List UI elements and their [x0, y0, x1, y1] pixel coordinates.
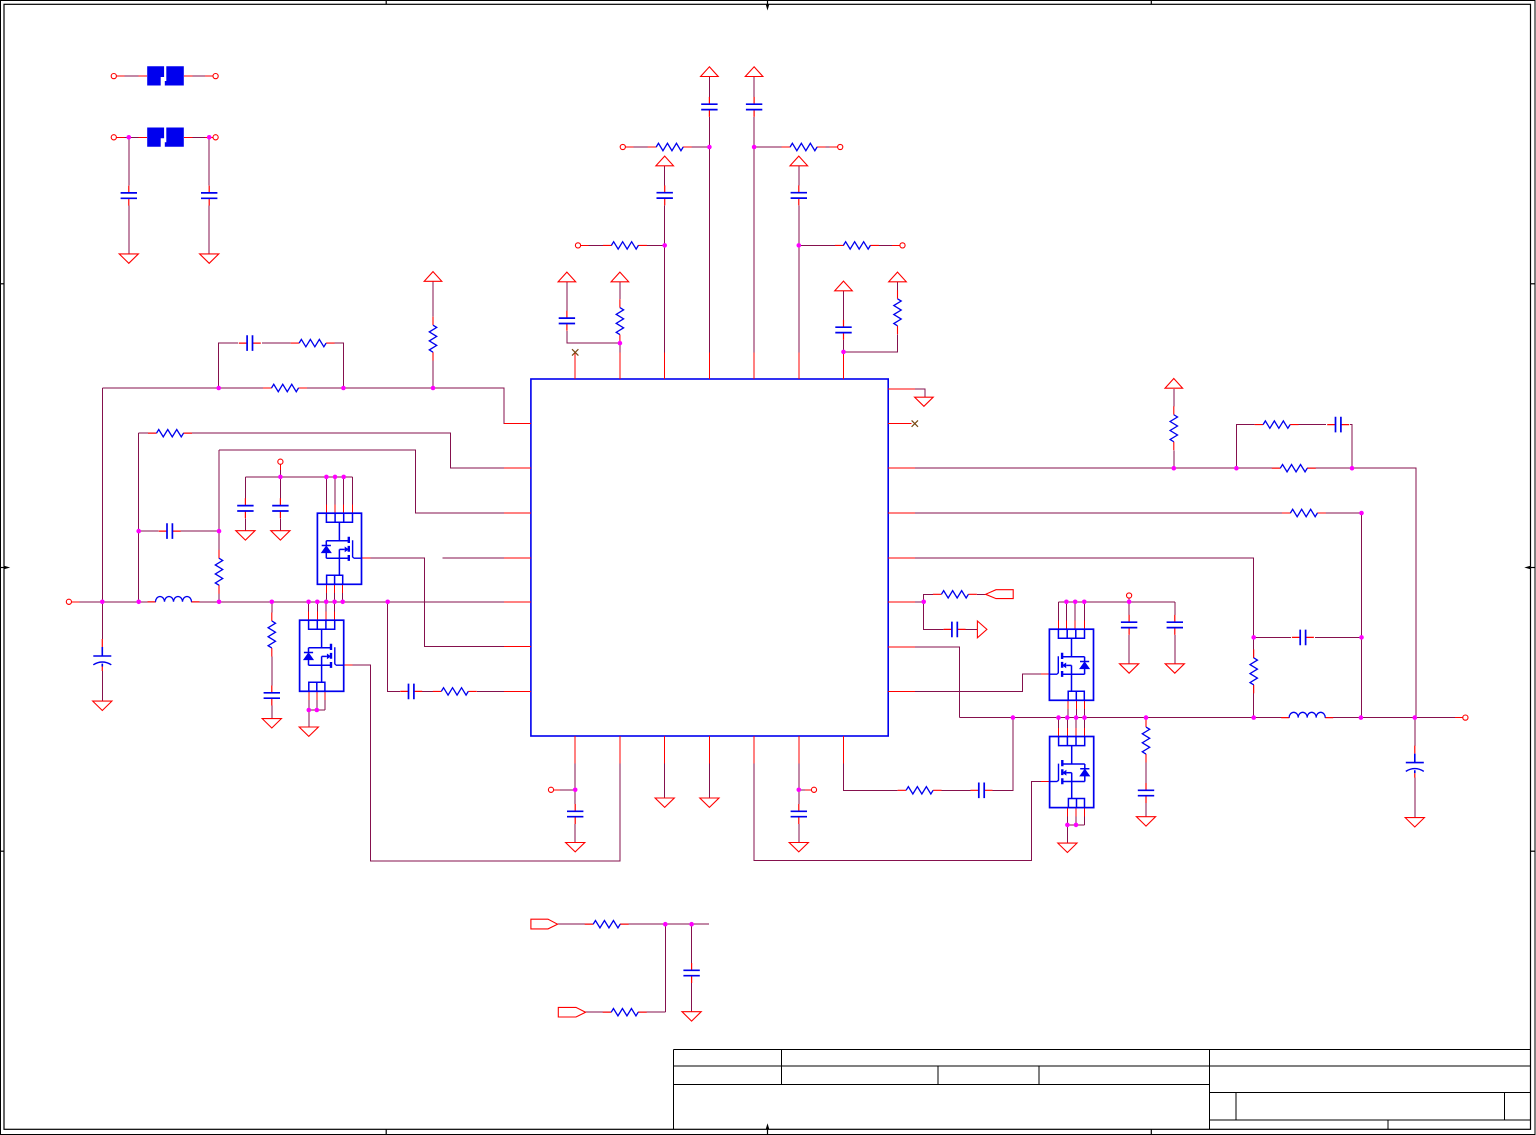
node Q2 source a — [307, 708, 312, 713]
pin stubs IC bottom side — [575, 736, 843, 763]
zone tick bottom quarter left — [385, 1129, 387, 1134]
node rail x271 — [270, 600, 275, 605]
terminal J5 — [575, 243, 580, 248]
node J9 — [797, 788, 802, 793]
wire output rail — [960, 717, 1463, 719]
node out rail q4d — [1082, 715, 1087, 720]
node FB2 left — [127, 135, 132, 140]
wire Q4 source pins join — [1067, 808, 1084, 825]
wire stub to IC pin 4 — [443, 557, 531, 559]
zone tick left quarter upper — [1, 283, 5, 285]
wire IC right pin to bst column — [888, 558, 1253, 717]
power VDD2 — [745, 67, 763, 77]
wire C21 branch left — [1254, 636, 1291, 638]
node gate rail p3 — [341, 475, 346, 480]
wire IC pin to J9 node — [799, 789, 812, 791]
wire C20 to loop right leg — [1350, 425, 1352, 469]
capacitor C1 — [121, 186, 137, 206]
wire VDD9 to R9 — [432, 282, 434, 317]
wire right branch vertical — [218, 450, 220, 602]
node tag row a — [663, 922, 668, 927]
transistor Q4 dual MOSFET lower right — [1050, 737, 1094, 808]
power VDD1 — [701, 67, 719, 77]
wire terminal J3 row to node — [625, 146, 709, 148]
resistor R23 vertical — [215, 550, 222, 594]
pin stubs IC left side — [504, 424, 531, 692]
resistor R1 — [648, 143, 692, 150]
wire Q4 source to ground — [1066, 825, 1068, 843]
wire VDD2 to C4 — [753, 77, 755, 97]
wire tag2 to R15 row — [586, 1011, 666, 1013]
terminal J1 left — [111, 74, 116, 79]
node IC right x923 — [921, 600, 926, 605]
wire ferrite FB2 left lead — [116, 136, 147, 138]
node out rail x1361 — [1359, 715, 1364, 720]
zone tick top center arrow — [767, 1, 769, 5]
wire IC bottom pin to R13 — [844, 736, 898, 790]
wire VDD8 to R6 — [897, 282, 899, 291]
no-connect X1 — [572, 349, 578, 355]
terminal J2 left — [111, 135, 116, 140]
node rail q2e — [340, 600, 345, 605]
wire ferrite FB1 right lead — [184, 75, 213, 77]
node fb row a — [1172, 466, 1177, 471]
terminal J11 input — [66, 599, 71, 604]
wire Q1 source pins to main rail — [327, 584, 343, 602]
wire Q2 drain pins to main rail — [309, 602, 335, 620]
terminal J9 — [811, 787, 816, 792]
node rail q2d — [332, 600, 337, 605]
power VDD8 — [889, 272, 907, 282]
pin stubs ferrite FB1 — [116, 75, 213, 77]
pin stub terminals top row — [581, 147, 900, 245]
wire terminal J10 stub — [1128, 598, 1130, 602]
wire R5 to IC pin — [619, 343, 621, 379]
wire C9 to R7 — [262, 342, 291, 344]
wire comp rail left leg down — [101, 388, 103, 602]
wire Q3 source pins to output rail — [1068, 700, 1084, 717]
capacitor C15 series — [400, 684, 422, 700]
pin stub output rail terminal — [1455, 717, 1463, 719]
resistor R12 — [433, 688, 477, 695]
terminal J12 output — [1463, 715, 1468, 720]
wire IC right pin to down arrow — [888, 389, 925, 397]
wire VDD4 to C6 — [798, 166, 800, 186]
ground C2 — [200, 254, 219, 263]
node gate rail r3 — [1082, 600, 1087, 605]
ground C23 — [1120, 664, 1139, 673]
transistor Q3 dual MOSFET upper right — [1049, 629, 1093, 700]
pin stub terminals J8 J9 — [554, 789, 812, 791]
ground C17 — [789, 843, 808, 852]
wire C23 to ground — [1128, 635, 1130, 664]
power VDD9 — [424, 272, 442, 282]
resistor R3 — [603, 242, 647, 249]
node rail x138 — [136, 600, 141, 605]
resistor R5 — [616, 299, 623, 343]
pin stub input rail terminal — [72, 601, 80, 603]
ground C14 — [262, 719, 281, 728]
tag flag TP4 triangle — [977, 621, 987, 638]
capacitor C26 polarized — [1406, 746, 1424, 778]
node out rail x1146 — [1144, 715, 1149, 720]
wire IC pin down through node to C17 — [798, 736, 800, 804]
wire terminal J5 row to node — [581, 244, 665, 246]
capacitor C8 — [835, 320, 851, 340]
wire R6 to node — [844, 334, 898, 352]
wire C8 node to IC pin — [843, 340, 845, 379]
terminal J2 right — [213, 135, 218, 140]
wire IC bottom pin to Q4 gate — [754, 736, 1050, 860]
zone tick right quarter lower — [1531, 850, 1536, 852]
pin stubs IC right side — [888, 389, 915, 691]
wire C11 upper lead — [244, 477, 246, 498]
wire IC right pin feedback row — [888, 468, 1416, 717]
ground C16 — [566, 843, 585, 852]
capacitor C14 — [264, 686, 280, 706]
capacitor C3 — [701, 97, 717, 117]
wire C11 to ground — [244, 518, 246, 530]
title block outline — [674, 1050, 1531, 1130]
wire C25 to ground — [1145, 803, 1147, 817]
zone tick bottom quarter right — [1150, 1129, 1152, 1134]
ground IC pin 1 — [655, 798, 674, 807]
node VDD2 row — [752, 145, 757, 150]
node comp rail a — [216, 386, 221, 391]
node C10 right — [217, 529, 222, 534]
wire C10 link right — [181, 530, 219, 532]
node Q4 source b — [1074, 823, 1079, 828]
resistor R18 — [1272, 465, 1316, 472]
terminal J6 — [900, 243, 905, 248]
node FB2 right — [207, 135, 212, 140]
wire node to terminal J6 — [799, 244, 900, 246]
wire tag1 to R14 row — [558, 923, 710, 925]
wire R21 to tag3 — [977, 593, 986, 595]
pin stubs MOSFET Q3 — [1041, 621, 1084, 710]
wire C22 to tag4 — [966, 628, 978, 630]
resistor R4 — [835, 242, 879, 249]
resistor R8 — [263, 384, 307, 391]
wire Q3 drain pins to gate rail — [1058, 602, 1084, 629]
node J8 — [573, 788, 578, 793]
ferrite bead FB1 — [147, 66, 184, 85]
wire R10 row to IC pin — [139, 433, 531, 468]
node comp rail b — [341, 386, 346, 391]
wire C14 to ground — [271, 706, 273, 719]
capacitor C12 — [272, 498, 288, 518]
node Q2 source b — [315, 708, 320, 713]
wire C10 link left — [139, 530, 159, 532]
wire C12 to ground — [279, 518, 281, 530]
no-connect X2 — [912, 420, 918, 426]
wire C24 to ground — [1174, 635, 1176, 664]
resistor R17 — [1255, 421, 1299, 428]
inductor L1 — [148, 597, 200, 602]
zone tick top quarter left — [385, 1, 387, 5]
resistor R6 — [894, 290, 901, 334]
wire VDD5 to C7 — [566, 281, 568, 310]
capacitor C24 — [1167, 615, 1183, 635]
capacitor C19 — [683, 963, 699, 983]
node bst b — [1359, 635, 1364, 640]
resistor R13 — [898, 787, 942, 794]
pin stubs MOSFET Q1 — [326, 505, 370, 594]
ground C12 — [271, 531, 290, 540]
wire ferrite FB2 right lead — [184, 136, 213, 138]
wire C1 to ground — [128, 206, 130, 254]
power VDD10 — [1165, 379, 1183, 389]
wire node down to lower row — [664, 924, 666, 1012]
node C10 left — [136, 529, 141, 534]
capacitor C11 — [237, 498, 253, 518]
wire C24 upper lead — [1174, 602, 1176, 615]
wire IC right pin row with R20 — [888, 512, 1361, 514]
ground C25 — [1136, 817, 1155, 826]
capacitor C21 series — [1292, 630, 1314, 646]
wire node down to C22 — [924, 602, 944, 630]
wire IC right pin to output rail left end — [888, 647, 959, 718]
node R5 C7 — [618, 341, 623, 346]
wire IC right pin to node — [888, 601, 924, 603]
wire C2 to ground — [208, 206, 210, 254]
power VDD4 — [790, 156, 808, 166]
wire C13 to rail — [101, 602, 103, 639]
terminal J7 — [278, 459, 283, 464]
pin stubs ferrite FB2 — [116, 136, 213, 138]
zone tick right center arrow — [1531, 567, 1536, 569]
ground C13 — [93, 701, 112, 710]
wire R11 to rail — [271, 602, 273, 613]
wire C4 to IC pin — [753, 117, 755, 379]
transistor Q1 dual MOSFET upper left — [317, 513, 361, 584]
capacitor C18 series — [971, 783, 993, 799]
wire gate rail upper right — [1058, 601, 1174, 603]
node fb row c — [1350, 466, 1355, 471]
node out rail x1414 — [1413, 715, 1418, 720]
wire C19 to ground — [691, 983, 693, 1012]
node rail x219 — [217, 600, 222, 605]
capacitor C13 polarized — [93, 639, 111, 671]
node gate rail p1 — [324, 475, 329, 480]
wire gate rail upper left — [245, 476, 352, 478]
capacitor C20 series — [1327, 417, 1349, 433]
wire C15 to R12 — [422, 690, 433, 692]
pin stub terminal J7 — [279, 464, 281, 470]
resistor R22 vertical — [1142, 719, 1149, 763]
node out rail x1253 — [1251, 715, 1256, 720]
node rail q2a — [306, 600, 311, 605]
wire R11 to C14 — [271, 657, 273, 686]
wire C16 to ground — [574, 824, 576, 843]
node comp rail c — [431, 386, 436, 391]
capacitor C23 — [1121, 615, 1137, 635]
power VDD5 — [558, 272, 576, 282]
pin stubs MOSFET Q2 — [309, 612, 353, 701]
ground C11 — [236, 531, 255, 540]
node bst a — [1251, 635, 1256, 640]
resistor R15 — [603, 1009, 647, 1016]
node VDD4 row — [797, 243, 802, 248]
resistor R21 — [933, 591, 977, 598]
zone tick left quarter lower — [1, 850, 5, 852]
node rail q2c — [324, 600, 329, 605]
wire feedback loop left leg — [219, 343, 238, 388]
zone tick top quarter right — [1150, 1, 1152, 5]
ground C1 — [119, 254, 138, 263]
wire C13 to ground — [101, 671, 103, 701]
resistor R2 — [782, 143, 826, 150]
capacitor C22 series — [944, 622, 966, 638]
wire VDD6 to R5 — [619, 282, 621, 300]
resistor R16 vertical bst — [1250, 649, 1257, 693]
wire terminal J7 stub — [279, 464, 281, 477]
inductor L2 — [1281, 712, 1333, 717]
wire R7 to loop right leg — [335, 343, 344, 388]
node out rail q4b — [1065, 715, 1070, 720]
wire ferrite FB1 left lead — [116, 75, 147, 77]
wire C6 to IC pin — [798, 205, 800, 379]
wire Q4 drain pins to output rail — [1059, 718, 1085, 737]
ground Q2 source — [299, 727, 318, 736]
node out rail x1012 — [1011, 715, 1016, 720]
terminal J3 — [620, 144, 625, 149]
wire Q1 gate to IC pin — [362, 558, 531, 646]
wire comp rail — [102, 388, 531, 424]
node gate rail J10 — [1127, 600, 1132, 605]
capacitor C9 series — [239, 335, 261, 351]
wire R19 to feedback row — [1173, 450, 1175, 468]
node rail x102 — [100, 600, 105, 605]
wire C17 to ground — [798, 824, 800, 843]
node gate rail J7 — [278, 475, 283, 480]
node gate rail p2 — [333, 475, 338, 480]
capacitor C4 — [746, 97, 762, 117]
ground C26 — [1405, 818, 1424, 827]
resistor R20 — [1282, 509, 1326, 516]
tag flag TP2 — [558, 1007, 585, 1017]
node VDD1 row — [707, 145, 712, 150]
wire C18 up to output rail — [993, 718, 1014, 791]
capacitor C5 — [657, 185, 673, 205]
wire node up to R21 — [924, 594, 933, 602]
capacitor C17 — [791, 804, 807, 824]
node out rail q4c — [1074, 715, 1079, 720]
wire VDD1 to C3 — [708, 77, 710, 97]
wire node column down to output rail — [1361, 513, 1363, 718]
capacitor C2 — [201, 186, 217, 206]
zone tick bottom center arrow — [767, 1129, 769, 1134]
wire R12 to IC pin — [477, 690, 531, 692]
wire C1 to rail — [128, 137, 130, 185]
pin stubs MOSFET Q4 — [1041, 728, 1085, 817]
ground C24 — [1165, 664, 1184, 673]
tag flag TP3 left pointing — [986, 590, 1014, 599]
wire R9 to comp rail — [432, 361, 434, 388]
capacitor C10 series — [159, 523, 181, 539]
terminal J4 — [838, 144, 843, 149]
wire rail down to C26 — [1414, 718, 1416, 746]
wire R17 to C20 — [1299, 424, 1327, 426]
pin stubs IC top side — [575, 353, 843, 380]
resistor R9 — [429, 317, 436, 361]
wire IC right pin to Q3 gate — [888, 674, 1049, 691]
ground Q4 source — [1058, 843, 1077, 852]
wire rail branch down to C15 — [388, 602, 401, 692]
transistor Q2 dual MOSFET lower left — [300, 620, 344, 691]
wire C2 to rail — [208, 137, 210, 185]
wire C7 to node — [567, 331, 620, 343]
tag flag TP1 — [531, 919, 558, 929]
pin stub no-connect top — [574, 356, 576, 379]
wire R13 to C18 — [942, 789, 971, 791]
wire R22 to C25 — [1145, 763, 1147, 783]
wire C23 upper lead — [1128, 602, 1130, 615]
terminal J1 right — [213, 74, 218, 79]
node Q4 source a — [1065, 823, 1070, 828]
node tag row b — [689, 922, 694, 927]
wire C21 branch right — [1315, 636, 1362, 638]
wire C5 to IC pin — [664, 205, 666, 379]
node R20 row — [1359, 511, 1364, 516]
node VDD3 row — [662, 243, 667, 248]
wire left branch vertical — [138, 433, 140, 602]
terminal J8 — [548, 787, 553, 792]
wire IC ground pin 2 — [708, 736, 710, 798]
ground IC pin 2 — [700, 798, 719, 807]
resistor R14 — [585, 921, 629, 928]
zone tick left center arrow — [1, 567, 5, 569]
wire right loop left leg — [1236, 425, 1254, 469]
wire VDD10 to R19 — [1173, 389, 1175, 406]
wire Q2 source pins join — [309, 691, 325, 710]
capacitor C25 — [1138, 783, 1154, 803]
resistor R11 vertical — [268, 612, 275, 656]
node gate rail r1 — [1064, 600, 1069, 605]
node gate rail r2 — [1073, 600, 1078, 605]
wire IC pin down through node to C16 — [574, 736, 576, 804]
node out rail q4a — [1056, 715, 1061, 720]
wire IC ground pin 1 — [664, 736, 666, 798]
node C8 R6 — [841, 350, 846, 355]
capacitor C7 — [559, 311, 575, 331]
wire Q2 source to ground — [308, 710, 310, 727]
node rail x387 — [385, 600, 390, 605]
resistor R7 — [291, 339, 335, 346]
power arrow down IC right pin — [915, 397, 934, 406]
op-amp U1 main IC body — [531, 379, 888, 736]
power VDD3 — [656, 156, 674, 166]
power VDD6 — [611, 272, 629, 282]
wire main input rail — [72, 601, 531, 603]
wire VDD7 to C8 — [843, 291, 845, 320]
wire C3 to IC pin — [708, 117, 710, 379]
capacitor C6 — [791, 185, 807, 205]
ground C19 — [682, 1012, 701, 1021]
capacitor C16 — [567, 804, 583, 824]
ferrite bead FB2 — [147, 128, 184, 147]
wire VDD3 to C5 — [664, 166, 666, 186]
terminal J10 — [1127, 593, 1132, 598]
wire IC pin to J8 node — [554, 789, 576, 791]
power VDD7 — [835, 281, 853, 291]
wire C26 to ground — [1414, 778, 1416, 818]
wire C12 upper lead — [279, 477, 281, 498]
wire node to terminal J4 — [754, 146, 838, 148]
wire Q2 gate run to IC bottom pin — [344, 665, 620, 861]
node rail q2b — [315, 600, 320, 605]
wire Q1 drain pins to gate rail — [326, 477, 352, 513]
